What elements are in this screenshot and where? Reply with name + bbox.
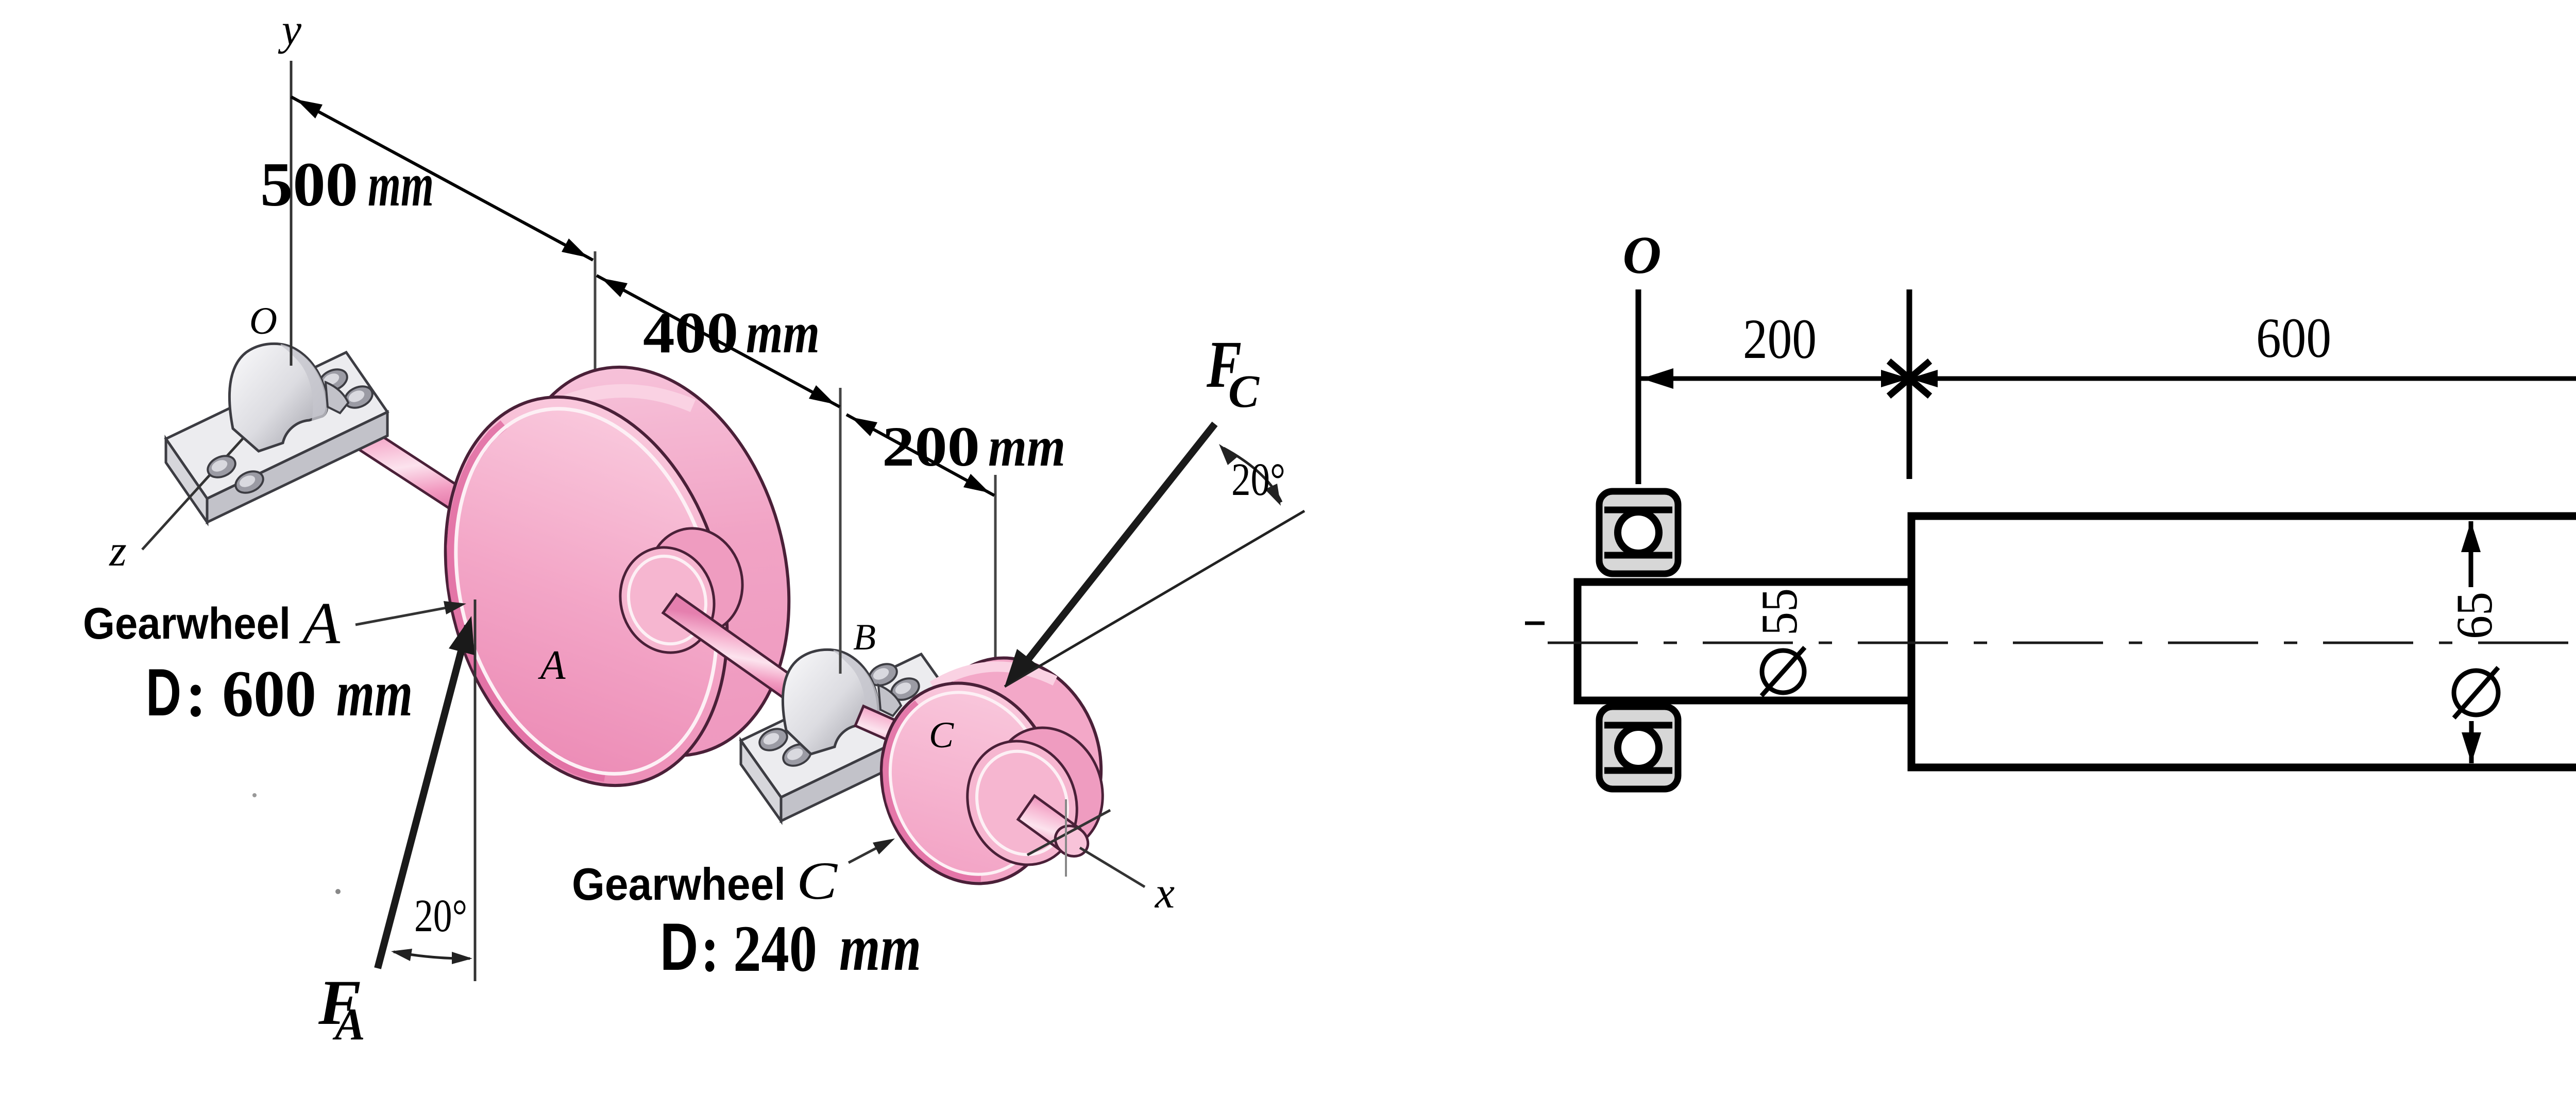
- svg-text:A: A: [299, 591, 341, 656]
- svg-text:mm: mm: [839, 911, 921, 984]
- svg-text:55: 55: [1751, 588, 1808, 636]
- svg-text:mm: mm: [988, 415, 1065, 478]
- svg-text:A: A: [332, 1000, 365, 1050]
- svg-text:B: B: [853, 616, 876, 658]
- svg-text:: 600: : 600: [185, 657, 316, 730]
- svg-text:20°: 20°: [1231, 454, 1285, 505]
- svg-text:: 240: : 240: [701, 912, 817, 985]
- svg-text:O: O: [1622, 226, 1661, 285]
- svg-text:C: C: [929, 714, 954, 756]
- svg-text:y: y: [278, 5, 302, 54]
- svg-text:500: 500: [260, 150, 358, 219]
- svg-text:65: 65: [2446, 592, 2503, 639]
- svg-text:mm: mm: [336, 656, 413, 730]
- svg-text:x: x: [1154, 868, 1175, 917]
- svg-text:mm: mm: [368, 150, 434, 219]
- svg-text:D: D: [660, 909, 698, 984]
- svg-text:D: D: [146, 655, 181, 730]
- svg-text:C: C: [1228, 366, 1260, 417]
- svg-text:Gearwheel: Gearwheel: [83, 599, 291, 648]
- svg-text:A: A: [538, 643, 566, 688]
- svg-text:200: 200: [1743, 307, 1817, 370]
- svg-text:400: 400: [643, 301, 738, 365]
- svg-text:Gearwheel: Gearwheel: [572, 859, 786, 910]
- svg-text:z: z: [109, 526, 126, 575]
- svg-text:C: C: [796, 851, 838, 911]
- svg-text:O: O: [249, 300, 277, 342]
- svg-text:20°: 20°: [414, 890, 467, 941]
- svg-text:200: 200: [882, 415, 980, 478]
- svg-text:mm: mm: [746, 301, 820, 365]
- svg-text:600: 600: [2256, 306, 2331, 369]
